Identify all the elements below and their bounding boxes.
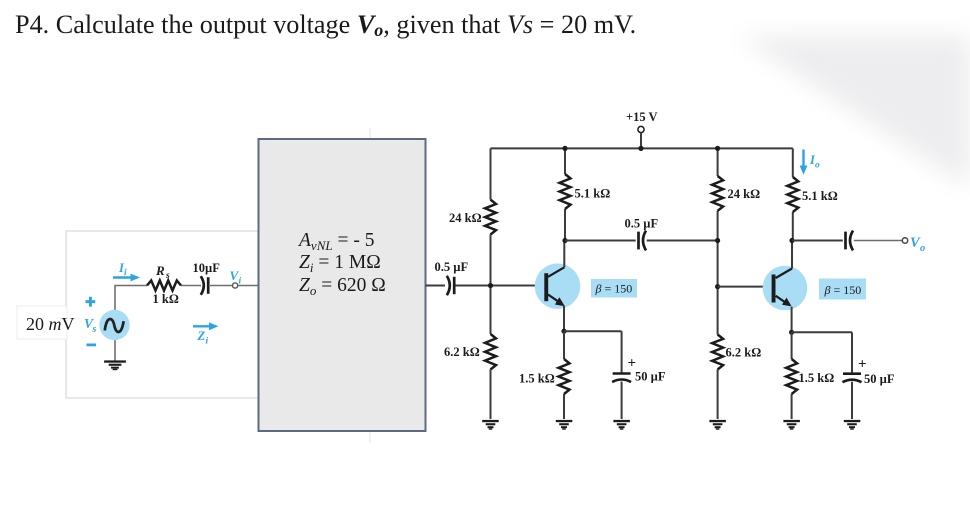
wire base2 [718, 286, 772, 288]
node base1 junction [488, 283, 493, 288]
resistor 5.1k (1) [560, 174, 571, 209]
wire collector1 to cap [565, 240, 636, 242]
capacitor 10uF [207, 277, 210, 294]
capacitor 0.5uF input [453, 277, 456, 294]
label beta1 box [591, 279, 637, 298]
resistor Rs [147, 281, 181, 291]
capacitor 50uF (2) [843, 372, 861, 375]
wire output [854, 240, 903, 242]
node emitter2 [789, 330, 794, 335]
svg-text:i: i [239, 277, 242, 287]
resistor 6.2k (2) [712, 335, 723, 370]
svg-text:β = 150: β = 150 [595, 282, 633, 296]
wire source loop [115, 286, 147, 311]
resistor 6.2k (1) [485, 334, 496, 370]
svg-text:24 kΩ: 24 kΩ [728, 187, 761, 201]
node interstage junction [715, 238, 720, 243]
arrow Ii [113, 276, 133, 278]
wire divider1 vertical [490, 148, 492, 199]
resistor 5.1k (2) [787, 177, 798, 212]
+15 V terminal [638, 126, 644, 132]
ground 50uF(2) [844, 420, 861, 422]
resistor 24k (2) [712, 176, 723, 211]
svg-text:24 kΩ: 24 kΩ [449, 211, 482, 225]
svg-text:P4. Calculate the output volta: P4. Calculate the output voltage Vo, giv… [15, 10, 636, 40]
svg-text:β = 150: β = 150 [824, 283, 862, 297]
top rail +15V [491, 147, 793, 149]
node emitter1 [561, 329, 566, 334]
plus sign [86, 300, 96, 303]
svg-text:1.5 kΩ: 1.5 kΩ [519, 372, 555, 386]
svg-text:0.5 µF: 0.5 µF [625, 217, 659, 231]
ground 1.5k(1) [556, 420, 573, 422]
wire emitter1 [564, 330, 622, 332]
svg-text:i: i [124, 268, 127, 278]
node Vo terminal [902, 238, 907, 243]
svg-text:1 kΩ: 1 kΩ [153, 292, 179, 306]
faint selection rectangle [66, 231, 258, 398]
wire collector2 to output cap [792, 240, 843, 242]
svg-text:50 µF: 50 µF [635, 370, 666, 384]
resistor 1.5k (1) [559, 359, 570, 394]
wire box output to cap [426, 285, 446, 287]
svg-text:1.5 kΩ: 1.5 kΩ [799, 371, 835, 385]
wire emitter2 [792, 331, 852, 333]
faint scan line [369, 128, 371, 443]
ground 1.5k(2) [783, 420, 800, 422]
wire cap to divider [456, 285, 545, 287]
ground source [104, 360, 126, 362]
svg-text:+: + [858, 357, 867, 373]
svg-text:+15 V: +15 V [626, 110, 658, 124]
svg-text:s: s [92, 324, 97, 335]
transistor Q2 [763, 266, 808, 311]
svg-text:R: R [155, 263, 165, 278]
wire 5.1k(2) [792, 148, 794, 177]
svg-text:o: o [920, 243, 925, 254]
resistor 24k (1) [485, 200, 496, 235]
node base2 junction [715, 284, 720, 289]
amplifier block box [259, 139, 426, 431]
svg-text:0.5 µF: 0.5 µF [435, 260, 469, 274]
ground divider1 [482, 420, 499, 422]
capacitor 0.5uF interstage [637, 232, 640, 250]
svg-text:6.2 kΩ: 6.2 kΩ [444, 345, 480, 359]
ground 50uF(1) [613, 420, 630, 422]
resistor 1.5k (2) [786, 359, 797, 394]
ground divider2 [709, 420, 726, 422]
arrow Io [802, 150, 804, 168]
svg-text:AvNL = - 5: AvNL = - 5 [297, 230, 374, 253]
transistor Q1 [535, 264, 580, 309]
arrow Zi [193, 325, 211, 327]
wire 5.1k(1) top [564, 148, 566, 174]
svg-text:s: s [165, 271, 170, 281]
svg-text:o: o [815, 161, 820, 171]
svg-text:Z: Z [197, 329, 206, 343]
svg-text:50 µF: 50 µF [864, 372, 895, 386]
source Vs circle [99, 310, 129, 340]
label beta2 box [819, 279, 866, 300]
wire divider2 vertical [717, 148, 719, 176]
svg-text:5.1 kΩ: 5.1 kΩ [575, 187, 611, 201]
svg-text:i: i [206, 337, 209, 347]
svg-text:20 mV: 20 mV [26, 314, 75, 334]
capacitor 50uF (1) [613, 372, 631, 375]
svg-text:6.2 kΩ: 6.2 kΩ [726, 346, 762, 360]
svg-text:10µF: 10µF [193, 261, 221, 275]
svg-text:5.1 kΩ: 5.1 kΩ [802, 189, 838, 203]
minus sign [87, 344, 97, 347]
capacitor output [844, 232, 847, 250]
20 mV label box [17, 306, 67, 339]
node Vi terminal [233, 283, 238, 288]
